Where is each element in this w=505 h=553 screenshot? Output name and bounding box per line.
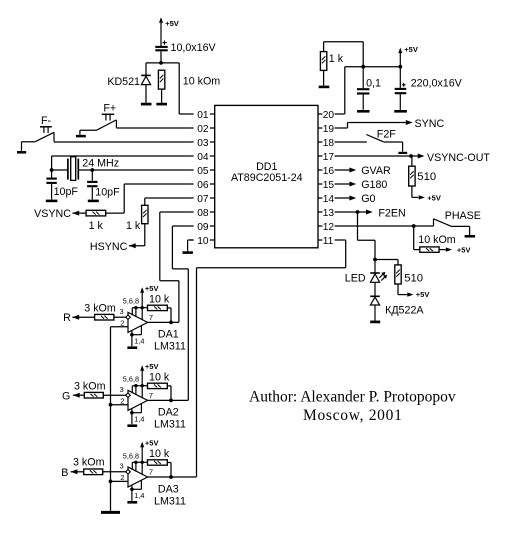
svg-text:3 kOm: 3 kOm <box>74 381 106 393</box>
svg-text:13: 13 <box>323 208 335 219</box>
svg-text:3 kOm: 3 kOm <box>73 457 105 469</box>
svg-text:+5V: +5V <box>145 439 159 448</box>
svg-text:LED: LED <box>345 273 366 285</box>
svg-text:G0: G0 <box>361 193 375 205</box>
svg-text:02: 02 <box>197 124 209 135</box>
svg-text:10 kOm: 10 kOm <box>183 75 221 87</box>
svg-text:2: 2 <box>120 318 124 327</box>
svg-text:12: 12 <box>323 222 335 233</box>
svg-text:1 k: 1 k <box>89 220 104 232</box>
svg-text:LM311: LM311 <box>154 419 186 431</box>
svg-text:3: 3 <box>120 307 124 316</box>
svg-text:+5V: +5V <box>145 362 159 371</box>
svg-text:7: 7 <box>149 391 153 400</box>
svg-text:5,6,8: 5,6,8 <box>123 375 139 384</box>
svg-text:F-: F- <box>41 115 52 127</box>
svg-text:24 MHz: 24 MHz <box>82 158 119 170</box>
svg-text:LM311: LM311 <box>154 495 186 507</box>
svg-text:DA1: DA1 <box>158 329 179 341</box>
svg-text:08: 08 <box>197 208 209 219</box>
svg-text:VSYNC-OUT: VSYNC-OUT <box>427 152 490 164</box>
svg-text:КД522А: КД522А <box>385 305 424 317</box>
svg-text:KD521: KD521 <box>107 76 140 88</box>
svg-text:1,4: 1,4 <box>134 336 144 345</box>
svg-text:10 k: 10 k <box>149 448 170 460</box>
svg-text:DA2: DA2 <box>158 407 179 419</box>
svg-text:510: 510 <box>404 272 423 284</box>
svg-text:06: 06 <box>197 180 209 191</box>
svg-text:+5V: +5V <box>416 290 430 299</box>
svg-text:5,6,8: 5,6,8 <box>123 451 139 460</box>
svg-text:F2EN: F2EN <box>378 208 405 220</box>
svg-text:1 k: 1 k <box>329 53 344 65</box>
svg-text:+5V: +5V <box>427 193 441 202</box>
svg-text:+5V: +5V <box>404 45 418 54</box>
svg-text:04: 04 <box>197 152 209 163</box>
svg-text:18: 18 <box>323 138 335 149</box>
svg-text:10,0x16V: 10,0x16V <box>171 42 217 54</box>
svg-text:DA3: DA3 <box>158 483 179 495</box>
svg-text:+5V: +5V <box>457 245 471 254</box>
svg-text:09: 09 <box>197 222 209 233</box>
svg-text:3: 3 <box>120 385 124 394</box>
svg-text:19: 19 <box>323 124 335 135</box>
svg-text:17: 17 <box>323 152 335 163</box>
svg-text:5,6,8: 5,6,8 <box>123 297 139 306</box>
svg-text:2: 2 <box>120 396 124 405</box>
svg-text:R: R <box>63 312 71 324</box>
svg-text:SYNC: SYNC <box>415 118 445 130</box>
svg-text:20: 20 <box>323 110 335 121</box>
svg-text:1,4: 1,4 <box>134 491 144 500</box>
svg-text:10 k: 10 k <box>149 371 170 383</box>
svg-text:VSYNC: VSYNC <box>34 208 71 220</box>
svg-text:14: 14 <box>323 194 335 205</box>
svg-text:GVAR: GVAR <box>361 165 391 177</box>
svg-text:7: 7 <box>149 313 153 322</box>
svg-text:+5V: +5V <box>145 284 159 293</box>
svg-text:+5V: +5V <box>165 19 179 28</box>
svg-text:Moscow, 2001: Moscow, 2001 <box>303 407 403 424</box>
svg-text:7: 7 <box>149 468 153 477</box>
svg-text:G180: G180 <box>361 179 387 191</box>
svg-text:1,4: 1,4 <box>134 414 144 423</box>
svg-text:LM311: LM311 <box>154 341 186 353</box>
svg-text:07: 07 <box>197 194 209 205</box>
svg-text:10 k: 10 k <box>149 293 170 305</box>
svg-text:03: 03 <box>197 138 209 149</box>
svg-text:16: 16 <box>323 166 335 177</box>
svg-text:1 k: 1 k <box>126 220 141 232</box>
svg-text:11: 11 <box>323 236 334 247</box>
svg-text:AT89C2051-24: AT89C2051-24 <box>231 172 303 184</box>
svg-text:0,1: 0,1 <box>366 77 381 89</box>
svg-text:PHASE: PHASE <box>445 210 481 222</box>
svg-text:DD1: DD1 <box>256 161 277 173</box>
svg-text:F2F: F2F <box>377 129 396 141</box>
svg-text:F+: F+ <box>103 102 116 114</box>
svg-text:05: 05 <box>197 166 209 177</box>
svg-text:510: 510 <box>417 171 436 183</box>
svg-text:B: B <box>61 467 68 479</box>
svg-text:G: G <box>62 390 70 402</box>
svg-text:15: 15 <box>323 180 335 191</box>
svg-text:Author: Alexander P. Protopopo: Author: Alexander P. Protopopov <box>249 388 456 405</box>
svg-text:10 kOm: 10 kOm <box>418 234 456 246</box>
svg-text:10pF: 10pF <box>54 186 79 198</box>
svg-text:2: 2 <box>120 473 124 482</box>
svg-text:3: 3 <box>120 462 124 471</box>
svg-text:220,0x16V: 220,0x16V <box>411 78 463 90</box>
svg-text:10pF: 10pF <box>95 186 120 198</box>
svg-text:10: 10 <box>197 236 209 247</box>
svg-text:HSYNC: HSYNC <box>90 241 128 253</box>
svg-text:01: 01 <box>197 110 209 121</box>
svg-text:3 kOm: 3 kOm <box>84 303 116 315</box>
